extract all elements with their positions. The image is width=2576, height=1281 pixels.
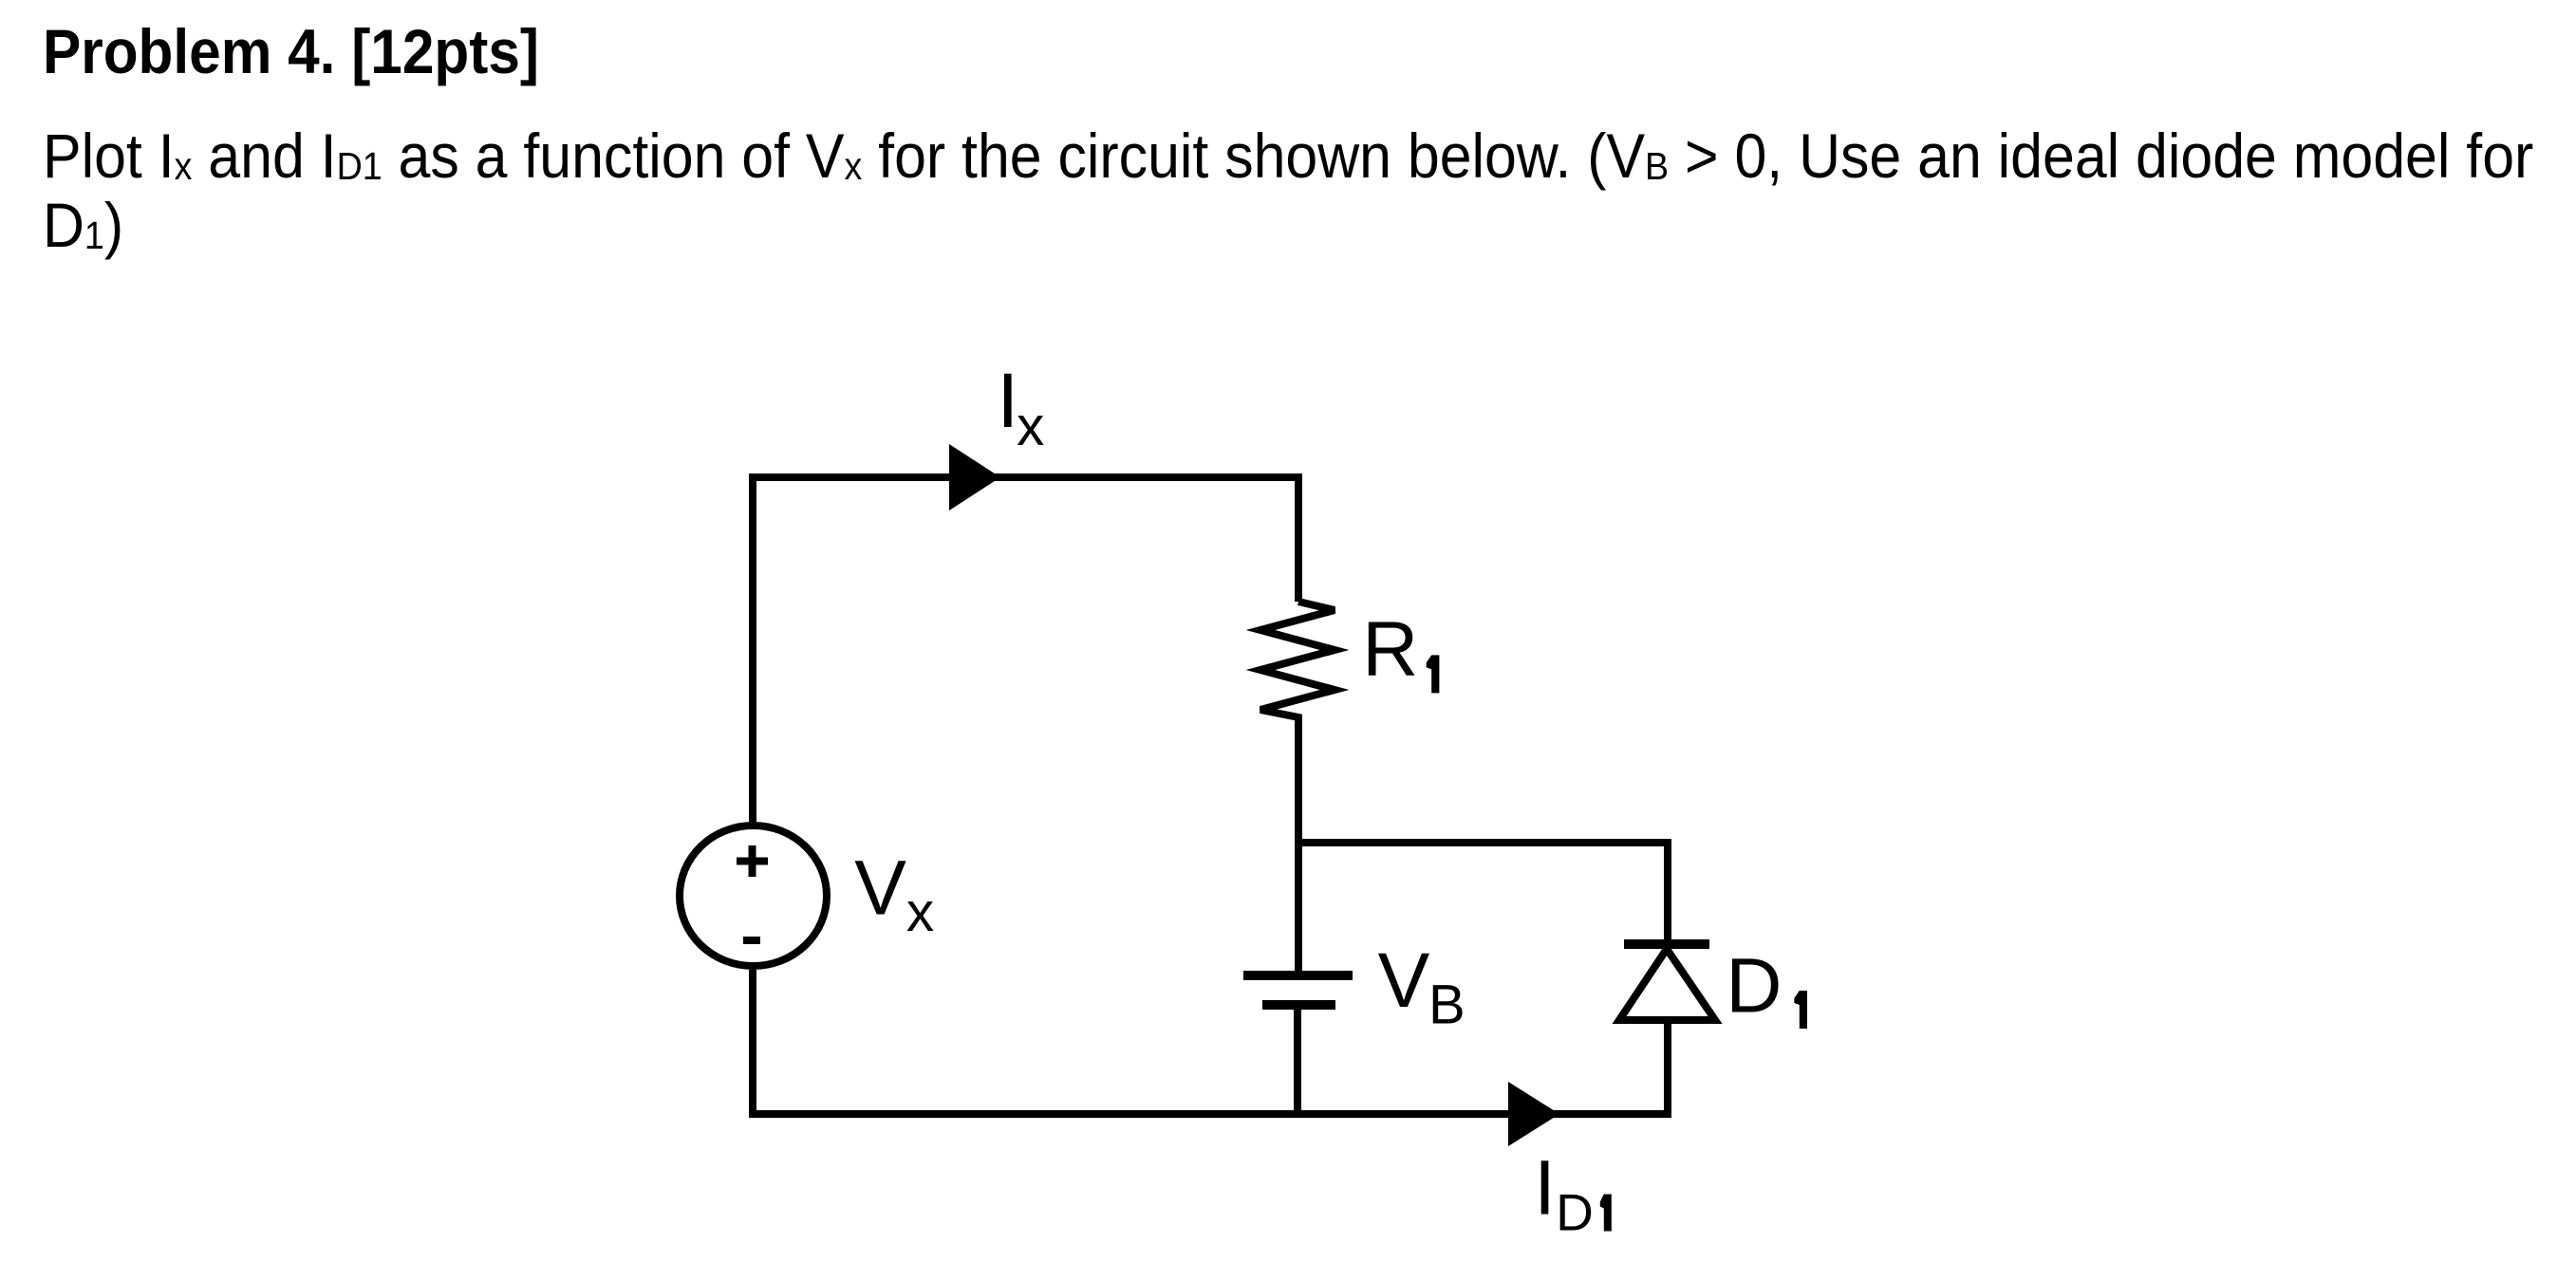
svg-text:D: D <box>1556 1183 1594 1242</box>
svg-text:V: V <box>1378 938 1430 1024</box>
svg-text:V: V <box>854 845 906 931</box>
svg-text:D: D <box>1726 942 1782 1029</box>
svg-text:I: I <box>997 358 1018 444</box>
svg-text:I: I <box>1534 1145 1556 1232</box>
svg-text:x: x <box>1017 396 1044 457</box>
svg-text:R: R <box>1362 606 1418 693</box>
svg-text:B: B <box>1428 975 1465 1036</box>
svg-text:x: x <box>906 882 934 943</box>
